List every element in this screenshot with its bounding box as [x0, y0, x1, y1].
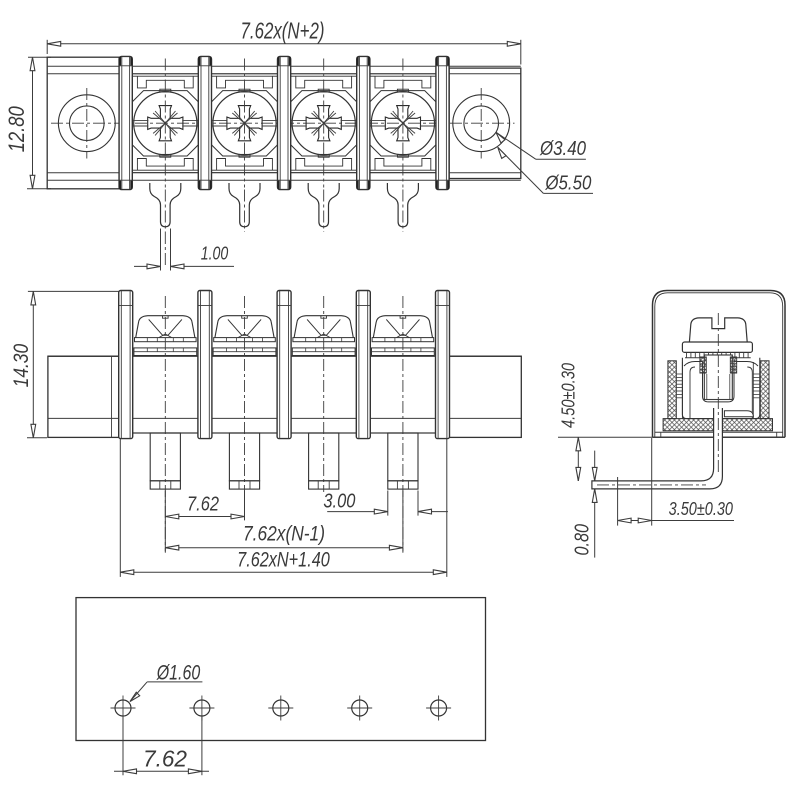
top view: screw head 1 [132, 59, 199, 188]
top view: terminal cell 3 [289, 74, 359, 173]
top view: barrier wall 3 [278, 56, 291, 189]
front view: right mounting ear [449, 356, 521, 437]
top view: solder pin 3 [308, 183, 339, 232]
top view: dimension 1.00 pin width [134, 229, 234, 271]
front view: screw head 4 [372, 296, 435, 553]
top view: left mounting plate [47, 57, 119, 189]
svg-text:3.00: 3.00 [323, 490, 355, 512]
pcb footprint: hole 5 Ø1.60 [426, 696, 451, 721]
svg-text:7.62: 7.62 [143, 746, 187, 772]
top view: dimension 7.62x(N+2) overall width [47, 17, 521, 64]
side view: dimension 0.80 pin thickness [572, 451, 598, 558]
top view: dimension 12.80 height [4, 57, 51, 189]
svg-text:Ø1.60: Ø1.60 [156, 661, 200, 684]
pcb footprint: hole 3 Ø1.60 [268, 696, 293, 721]
top view: barrier wall 1 [119, 56, 132, 189]
pcb footprint: hole 2 Ø1.60 [189, 696, 214, 721]
svg-text:Ø3.40: Ø3.40 [539, 138, 586, 160]
front view: body outline [48, 356, 521, 433]
front view: barrier wall 4 [356, 291, 370, 439]
pcb footprint: dimension 7.62 [114, 716, 209, 775]
front view: dimension 7.62 pitch [165, 491, 244, 552]
front view: barrier wall 3 [277, 291, 291, 439]
top view: terminal cell 4 [368, 74, 438, 173]
top view: left mounting hole Ø5.50/Ø3.40 [58, 88, 115, 159]
front view: left mounting ear [48, 356, 119, 437]
front view: dimension 3.00 pin width [323, 490, 448, 515]
top view: solder pin 1 [150, 183, 181, 232]
front view: dimension 14.30 height [10, 291, 119, 437]
top view: leader Ø3.40 [496, 132, 586, 160]
front view: dimension 7.62x(N-1) [165, 491, 403, 552]
front view: barrier wall 5 [436, 291, 450, 439]
front view: barrier wall 2 [198, 291, 212, 439]
side view: bent solder pin [592, 313, 723, 489]
side view: housing outline [653, 291, 786, 438]
pcb footprint: hole 4 Ø1.60 [347, 696, 372, 721]
svg-text:1.00: 1.00 [201, 244, 229, 264]
svg-text:0.80: 0.80 [572, 524, 594, 556]
top view: solder pin 4 [387, 183, 418, 232]
front view: screw head 1 [134, 296, 197, 553]
front view: barrier wall 1 [119, 291, 133, 439]
side view: serrated lock washer [685, 352, 751, 357]
side view: base cross-hatched band [663, 419, 772, 431]
side view: wire clamp body [682, 358, 759, 419]
front view: pin 2 [229, 433, 259, 489]
front view: pin 4 [388, 433, 418, 489]
svg-text:7.62x(N+2): 7.62x(N+2) [241, 17, 325, 43]
side view: clamp saddle plate [724, 411, 753, 417]
pcb footprint: leader Ø1.60 [130, 661, 202, 701]
top view: screw head 2 [211, 59, 278, 188]
top view: screw head 3 [290, 59, 357, 188]
top view: solder pin 2 [229, 183, 260, 232]
side view: dimension 3.50±0.30 [618, 438, 734, 526]
side view: screw head with slot [682, 318, 752, 353]
top view: terminal cell 1 [131, 74, 201, 173]
pcb footprint: board outline [76, 598, 486, 741]
svg-text:7.62: 7.62 [187, 493, 219, 515]
top view: rail lines [47, 66, 521, 180]
svg-text:4.50±0.30: 4.50±0.30 [559, 363, 579, 428]
top view: right mounting plate [449, 68, 521, 178]
side view: extension of housing bottom [558, 436, 653, 438]
top view: leader Ø5.50 [498, 147, 593, 194]
top view: right mounting hole [453, 88, 510, 159]
svg-text:7.62x(N-1): 7.62x(N-1) [243, 523, 325, 546]
top view: screw head 4 [369, 59, 436, 188]
top view: barrier wall 5 [436, 56, 449, 189]
side view: threaded shank [700, 355, 737, 400]
front view: screw head 2 [213, 296, 276, 492]
top view: barrier wall 4 [357, 56, 370, 189]
top view: terminal cell 2 [210, 74, 280, 173]
svg-text:12.80: 12.80 [4, 106, 29, 153]
front view: dimension 7.62xN+1.40 [120, 439, 447, 577]
side view: right rubber block hatched [753, 361, 769, 419]
front view: screw head 3 [292, 296, 355, 492]
svg-text:3.50±0.30: 3.50±0.30 [669, 499, 733, 519]
svg-text:14.30: 14.30 [10, 344, 33, 388]
front view: pin 3 [309, 433, 339, 489]
svg-text:7.62xN+1.40: 7.62xN+1.40 [237, 548, 330, 571]
side view: left rubber block hatched [668, 361, 683, 419]
side view: dimension 4.50±0.30 [559, 363, 581, 481]
svg-text:Ø5.50: Ø5.50 [545, 173, 592, 195]
front view: pin 1 [150, 433, 180, 489]
top view: horizontal centerline [51, 122, 515, 124]
pcb footprint: hole 1 Ø1.60 [111, 696, 136, 721]
top view: barrier wall 2 [198, 56, 211, 189]
